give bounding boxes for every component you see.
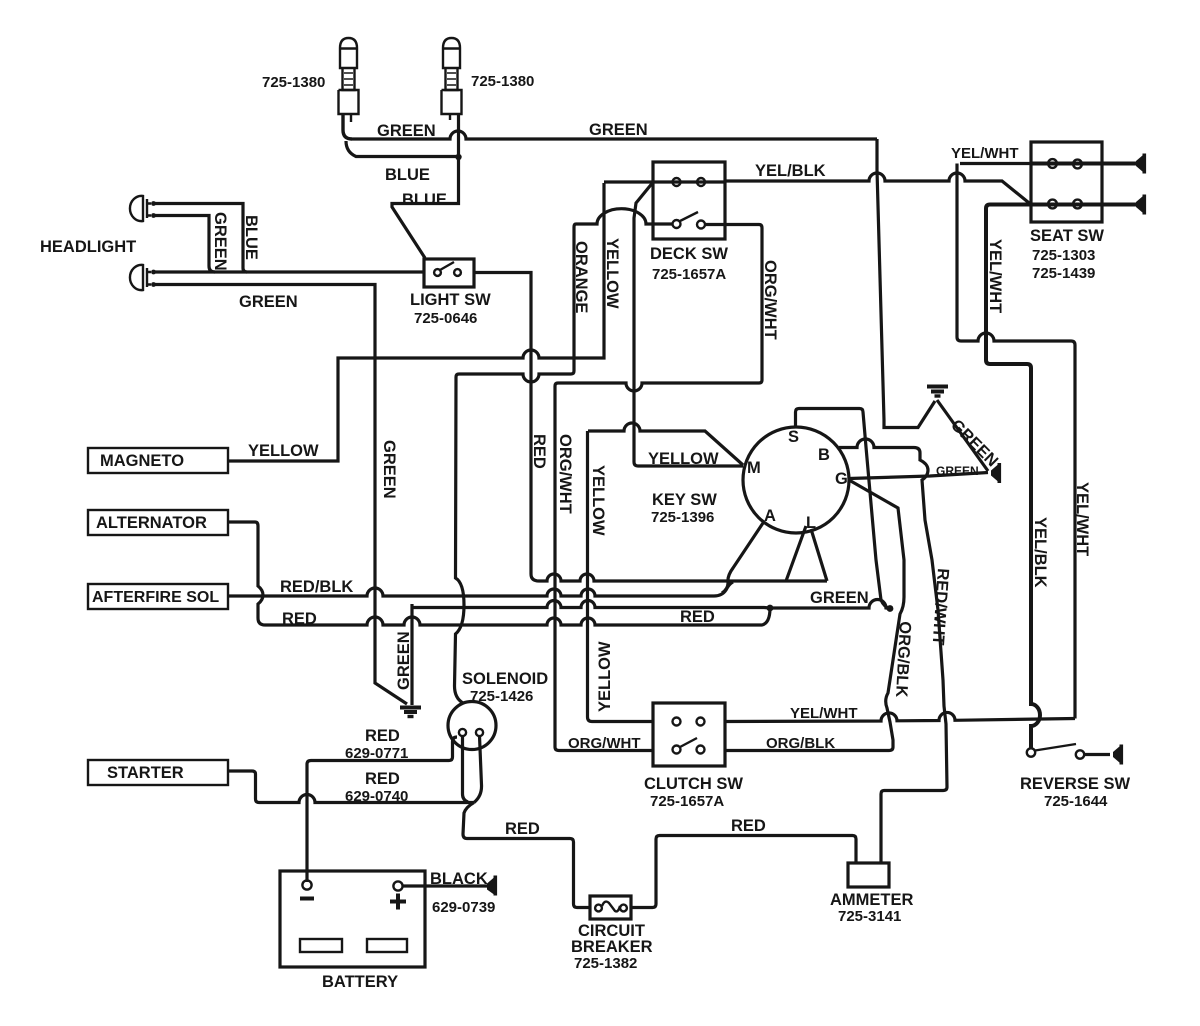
wire RED breaker to ammeter <box>631 836 856 908</box>
svg-text:MAGNETO: MAGNETO <box>100 452 184 470</box>
svg-text:M: M <box>747 459 761 477</box>
wire deck switch top row across <box>604 180 725 183</box>
svg-text:GREEN: GREEN <box>589 121 648 139</box>
key switch 725-1396 circle <box>743 427 849 533</box>
headlight lamp lower <box>130 265 156 290</box>
wire headlight lower to light switch <box>154 270 425 273</box>
svg-text:ORG/BLK: ORG/BLK <box>766 735 835 752</box>
svg-text:RED: RED <box>680 608 715 626</box>
svg-text:LIGHT SW: LIGHT SW <box>410 291 491 309</box>
svg-text:725-1657A: 725-1657A <box>652 266 726 283</box>
svg-text:G: G <box>835 470 848 488</box>
spade connector seat bottom <box>1136 195 1146 215</box>
spade connector reverse switch <box>1113 745 1123 765</box>
svg-text:YELLOW: YELLOW <box>603 238 621 309</box>
wire RED 629-0771 battery to solenoid <box>307 737 457 882</box>
circuit breaker 725-1382 <box>590 896 631 919</box>
wire GREEN headlight bottom long down left side <box>154 285 408 705</box>
svg-text:SOLENOID: SOLENOID <box>462 670 548 688</box>
svg-text:RED: RED <box>530 434 548 469</box>
svg-text:GREEN: GREEN <box>377 122 436 140</box>
svg-text:ORG/WHT: ORG/WHT <box>761 260 779 340</box>
svg-text:REVERSE SW: REVERSE SW <box>1020 775 1130 793</box>
wire RED 629-0740 starter to solenoid junction <box>228 771 474 803</box>
seat YEL/WHT: x957 down, across, x1075 down to reverse area <box>957 164 1075 719</box>
svg-text:RED/BLK: RED/BLK <box>280 578 353 596</box>
wire ORANGE deck bottom-left down-left <box>455 209 673 703</box>
svg-text:YELLOW: YELLOW <box>596 641 614 712</box>
svg-text:S: S <box>788 428 799 446</box>
svg-text:GREEN: GREEN <box>936 464 979 478</box>
svg-text:BLUE: BLUE <box>385 166 430 184</box>
svg-text:725-3141: 725-3141 <box>838 908 901 925</box>
svg-text:629-0739: 629-0739 <box>432 899 495 916</box>
wire BLACK battery plus to spade <box>403 884 488 887</box>
junction dot (458.5,157) <box>455 154 461 160</box>
svg-text:725-1303: 725-1303 <box>1032 247 1095 264</box>
wire GREEN vertical right side down to corner y427 <box>877 139 935 428</box>
light switch 725-0646 <box>424 259 474 287</box>
key L wires triangle <box>786 526 827 581</box>
wire YELLOW to key M upper <box>588 423 743 465</box>
reverse switch 725-1644 <box>1027 744 1110 759</box>
ground symbol top right <box>927 387 948 397</box>
svg-text:BREAKER: BREAKER <box>571 938 653 956</box>
key switch G wire diagonal down (ORG/BLK descent) <box>725 480 904 751</box>
svg-text:629-0771: 629-0771 <box>345 745 408 762</box>
component boxes left <box>88 448 228 785</box>
svg-text:629-0740: 629-0740 <box>345 788 408 805</box>
svg-text:KEY SW: KEY SW <box>652 491 717 509</box>
svg-text:ORANGE: ORANGE <box>572 241 590 313</box>
svg-text:725-1396: 725-1396 <box>651 509 714 526</box>
seat bottom row wires <box>1031 203 1136 207</box>
ammeter 725-3141 <box>848 863 889 887</box>
wire y581 bus <box>539 574 827 581</box>
wire key M horizontal from x633 <box>638 464 743 467</box>
svg-text:725-1657A: 725-1657A <box>650 793 724 810</box>
key switch G horizontal to spade <box>849 473 988 479</box>
svg-text:BLACK: BLACK <box>430 870 488 888</box>
svg-text:SEAT SW: SEAT SW <box>1030 227 1104 245</box>
svg-text:725-1380: 725-1380 <box>262 74 325 91</box>
vertical labels <box>211 212 1091 712</box>
svg-text:YEL/WHT: YEL/WHT <box>986 239 1004 313</box>
svg-text:BLUE: BLUE <box>242 215 260 260</box>
wire YEL/BLK deck to seat switch <box>725 173 1031 205</box>
svg-text:CLUTCH SW: CLUTCH SW <box>644 775 743 793</box>
deck switch 725-1657A <box>653 162 725 239</box>
wire GREEN top: bulbs to right corner x877 <box>352 131 877 139</box>
svg-text:A: A <box>764 507 776 525</box>
svg-text:RED: RED <box>365 727 400 745</box>
wire GREEN y608 bus <box>412 600 890 609</box>
key switch B wire to RED/WHT descent, ammeter <box>839 439 947 863</box>
svg-text:YELLOW: YELLOW <box>648 450 719 468</box>
wire RED/BLK afterfire <box>228 582 733 596</box>
battery <box>280 871 425 967</box>
wire BLUE headlight top <box>154 204 248 273</box>
svg-text:RED: RED <box>505 820 540 838</box>
svg-text:YELLOW: YELLOW <box>589 465 607 536</box>
wire GREEN diagonal to spade connector <box>937 400 988 471</box>
svg-text:YEL/WHT: YEL/WHT <box>951 145 1019 162</box>
svg-text:YELLOW: YELLOW <box>248 442 319 460</box>
svg-text:ALTERNATOR: ALTERNATOR <box>96 514 207 532</box>
svg-text:725-1439: 725-1439 <box>1032 265 1095 282</box>
svg-text:GREEN: GREEN <box>211 212 229 271</box>
svg-text:RED: RED <box>731 817 766 835</box>
svg-text:725-1382: 725-1382 <box>574 955 637 972</box>
seat switch 725-1303 / 725-1439 <box>1031 142 1102 222</box>
spade connector battery black <box>487 876 497 896</box>
svg-text:AMMETER: AMMETER <box>830 891 913 909</box>
svg-text:GREEN: GREEN <box>395 631 413 690</box>
svg-text:YEL/BLK: YEL/BLK <box>755 162 826 180</box>
key switch S wire loop <box>796 409 891 609</box>
wire deck diagonal to x633 vertical <box>634 181 654 466</box>
wire RED from light switch down <box>474 273 539 582</box>
spade connector seat top <box>1136 154 1146 174</box>
lamp bulb 725-1380 left <box>339 38 359 139</box>
svg-text:YEL/WHT: YEL/WHT <box>790 705 858 722</box>
junction dot (890,608.5) <box>887 605 894 612</box>
wire solenoid right terminal down to junction <box>474 736 482 803</box>
svg-text:RED: RED <box>282 610 317 628</box>
svg-text:YEL/BLK: YEL/BLK <box>1031 517 1049 588</box>
wire GREEN headlight <box>154 216 216 273</box>
svg-text:AFTERFIRE SOL: AFTERFIRE SOL <box>92 589 219 606</box>
lamp bulb 725-1380 right <box>442 38 462 120</box>
svg-text:BATTERY: BATTERY <box>322 973 398 991</box>
svg-text:GREEN: GREEN <box>810 589 869 607</box>
ground symbol bottom left <box>400 708 421 717</box>
wire BLUE: from bulbs elbow to light switch <box>346 141 459 258</box>
svg-text:BLUE: BLUE <box>402 191 447 209</box>
wire YELLOW from magneto up across <box>228 183 604 461</box>
clutch switch 725-1657A <box>653 703 725 766</box>
wire YELLOW long vertical x588 to clutch <box>588 431 654 722</box>
svg-text:RED: RED <box>365 770 400 788</box>
svg-text:ORG/WHT: ORG/WHT <box>568 735 641 752</box>
svg-text:725-1426: 725-1426 <box>470 688 533 705</box>
solenoid 725-1426 <box>448 702 496 750</box>
spade connector green key G <box>991 463 1001 483</box>
junction dot (770,608) <box>767 605 774 612</box>
svg-text:ORG/WHT: ORG/WHT <box>556 434 574 514</box>
svg-text:HEADLIGHT: HEADLIGHT <box>40 238 136 256</box>
svg-text:725-1380: 725-1380 <box>471 73 534 90</box>
headlight lamp upper <box>130 196 156 221</box>
svg-text:DECK SW: DECK SW <box>650 245 728 263</box>
svg-text:B: B <box>818 446 830 464</box>
svg-text:GREEN: GREEN <box>239 293 298 311</box>
svg-text:STARTER: STARTER <box>107 764 184 782</box>
wire GREEN vertical x412 to ground <box>410 604 413 705</box>
key A wire diagonal <box>722 523 763 593</box>
svg-text:725-0646: 725-0646 <box>414 310 477 327</box>
svg-text:725-1644: 725-1644 <box>1044 793 1108 810</box>
wire YEL/WHT clutch to right corner <box>725 712 1075 721</box>
svg-text:YEL/WHT: YEL/WHT <box>1073 482 1091 556</box>
wire RED alternator down and across <box>228 522 770 625</box>
wire RED junction down to circuit breaker <box>463 803 590 908</box>
wire bulb2 stem down to blue junction <box>457 114 460 157</box>
svg-text:GREEN: GREEN <box>380 440 398 499</box>
wire solenoid left terminal down <box>463 736 469 802</box>
wire ORG/WHT deck bottom-right down then left <box>555 225 762 751</box>
seat switch top row wire and YEL/WHT left corner <box>960 162 1031 165</box>
